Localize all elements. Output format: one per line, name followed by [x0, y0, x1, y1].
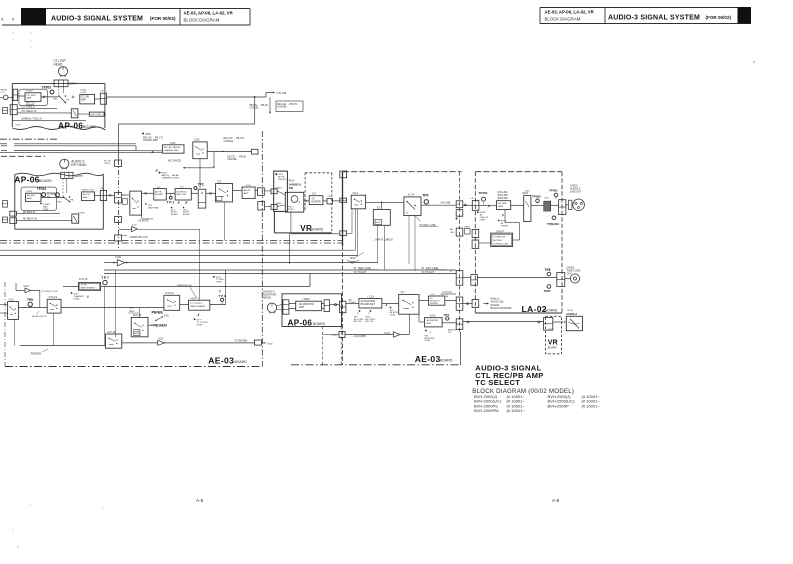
- svg-text:LANDS: LANDS: [276, 186, 283, 189]
- CTL RELAY IN wire: [17, 112, 71, 114]
- svg-text:↗: ↗: [357, 312, 360, 316]
- meter CN pair: [544, 318, 553, 331]
- TP501 test point: [50, 90, 54, 94]
- CN connector AE03 edge 2: [115, 193, 122, 204]
- svg-text:CANCEL: CANCEL: [224, 140, 234, 143]
- IC3 4.5 BUFFER: [309, 196, 323, 205]
- TC wire 2: [104, 273, 456, 275]
- svg-text:✗: ✗: [151, 151, 154, 155]
- NORMAL/STILL IN wire: [12, 119, 86, 121]
- svg-text:REC: REC: [54, 99, 59, 101]
- wire shaper in: [63, 286, 78, 288]
- wire dash to cn: [322, 334, 339, 336]
- svg-text:IC33: IC33: [246, 185, 251, 187]
- IC1 AD PB EQ AMP: [154, 189, 167, 201]
- IC30 switch: [193, 142, 207, 159]
- left header black tab: [21, 8, 46, 25]
- long verticals from tc row: [104, 287, 106, 346]
- svg-text:LA-02: LA-02: [522, 304, 547, 314]
- rounded enclosure board1: [19, 89, 48, 105]
- svg-text:CANCEL AMP: CANCEL AMP: [143, 139, 158, 142]
- IC18,19 switch C: [106, 334, 122, 348]
- svg-text:LEVEL: LEVEL: [216, 282, 223, 284]
- AP-06 board 3 outline: [282, 294, 342, 327]
- IC301 AD REC AMP: [25, 193, 41, 201]
- svg-text:W: W: [421, 266, 424, 270]
- wire cn to AE03: [107, 194, 115, 196]
- svg-text:W: W: [354, 266, 357, 270]
- TPE5 test point: [547, 285, 551, 289]
- svg-text:LEVEL: LEVEL: [74, 298, 81, 300]
- head shield dashed line: [62, 178, 64, 196]
- relay RY501: [71, 109, 78, 118]
- svg-text:AMP: AMP: [83, 196, 88, 199]
- wire q303 to transformer: [531, 204, 545, 206]
- board3 bottom dash vertical: [321, 327, 323, 366]
- svg-text:Q301,302,: Q301,302,: [497, 192, 508, 194]
- svg-text:← AA COMP1: ← AA COMP1: [351, 335, 367, 338]
- board3 right dash vertical: [340, 327, 342, 365]
- IC501 CTL PB AMP: [80, 94, 95, 104]
- svg-text:IC30: IC30: [194, 139, 200, 142]
- svg-text:OFFSET: OFFSET: [501, 225, 509, 227]
- svg-text:↗: ↗: [368, 312, 371, 316]
- IC502 CTL REC AMP: [25, 93, 41, 102]
- IC32 norm frq loc triangle: [132, 226, 138, 231]
- wire cn to pot: [265, 190, 271, 192]
- svg-text:MUTING: MUTING: [493, 240, 502, 242]
- svg-text:AD MONITOR: AD MONITOR: [299, 303, 314, 306]
- IC16,19 switch: [47, 299, 61, 313]
- CN col aa line: [456, 201, 463, 208]
- svg-text:✗: ✗: [197, 314, 200, 318]
- svg-text:BOARD: BOARD: [83, 125, 96, 129]
- svg-text:REC LINE: REC LINE: [358, 266, 371, 270]
- wire select tc to A: [61, 307, 164, 309]
- XLR connector audio-3 line out: [573, 199, 585, 211]
- Q303 S/N block: [524, 196, 531, 222]
- IC21 switch: [8, 302, 19, 320]
- svg-text:TP8: TP8: [545, 268, 551, 272]
- svg-text:REGEN: REGEN: [153, 324, 167, 328]
- IC14 block: [404, 197, 421, 216]
- meter wire junctions: [467, 321, 469, 323]
- wire regen row: [20, 345, 106, 347]
- svg-text:AS LINE: AS LINE: [498, 202, 507, 205]
- svg-text:A-9: A-9: [552, 498, 560, 503]
- vertical under ic16: [52, 313, 54, 345]
- svg-text:CHANNEL AMP: CHANNEL AMP: [164, 149, 179, 152]
- wire IC2 out: [191, 192, 199, 194]
- svg-text:HEAD: HEAD: [263, 295, 271, 299]
- wire b2 edge to eq row: [122, 194, 129, 196]
- IC5,6 AD METER AMP: [425, 318, 443, 327]
- meter wire arrow: [553, 321, 564, 323]
- svg-text:189?: 189?: [548, 329, 552, 331]
- svg-text:TP301: TP301: [37, 187, 47, 191]
- svg-text:LINE OUT: LINE OUT: [570, 190, 582, 193]
- svg-text:CHANNEL LEVEL: CHANNEL LEVEL: [162, 176, 181, 179]
- vertical link wire: [199, 159, 201, 188]
- TC REC LINE note: [415, 216, 421, 222]
- vertical from VR down: [289, 233, 291, 264]
- svg-text:BOARD: BOARD: [545, 309, 558, 313]
- LA-02 line-in CN: [472, 201, 479, 211]
- svg-text:I C1,8: I C1,8: [368, 296, 375, 299]
- svg-text:T1300: T1300: [267, 344, 274, 346]
- LA-02 left CN tc: [471, 275, 478, 286]
- svg-text:TP302: TP302: [532, 194, 541, 198]
- TP2 filter box: [198, 189, 206, 208]
- RV10 note: [370, 310, 372, 312]
- wire to CN: [255, 190, 258, 192]
- RV12 note: [213, 276, 215, 278]
- wire ic20 in: [104, 262, 117, 264]
- svg-text:-SFP: -SFP: [129, 308, 134, 310]
- AP-06 board 1 outline: [11, 83, 13, 127]
- svg-text:(# 10001~: (# 10001~: [507, 408, 526, 413]
- AE-03 right board left edge: [342, 172, 344, 246]
- svg-text:REC AD CANCEL: REC AD CANCEL: [164, 146, 182, 149]
- svg-text:AE CANCEL: AE CANCEL: [168, 159, 182, 162]
- left edge connector b2 1: [3, 217, 8, 223]
- svg-text:IC502: IC502: [80, 92, 87, 94]
- CN col mid: [456, 228, 463, 236]
- svg-text:KG50: KG50: [16, 124, 21, 126]
- svg-text:NOR / STILL: NOR / STILL: [90, 114, 102, 116]
- svg-text:AP-06: AP-06: [58, 120, 83, 130]
- NOR/STILL box: [89, 112, 104, 116]
- bus wire 1: [0, 143, 7, 145]
- connector column vertical: [459, 172, 461, 332]
- LA-02 board outline: [475, 171, 562, 173]
- TC PB WAVE SHAPER block: [78, 283, 100, 291]
- svg-text:IC15,16: IC15,16: [133, 314, 142, 317]
- svg-text:Q303: Q303: [522, 192, 529, 195]
- svg-text:→ AS MUTE: → AS MUTE: [135, 220, 148, 223]
- svg-text:TC SELECT: TC SELECT: [475, 378, 520, 387]
- left header rule top: [46, 8, 250, 10]
- wire cn to ic1-8: [330, 304, 340, 306]
- svg-text:T301: T301: [544, 198, 550, 200]
- wire amp to q303: [511, 204, 524, 206]
- wire cn to IC13 row: [333, 200, 340, 202]
- AE-03 left board bottom edge: [5, 366, 262, 368]
- svg-text:BOARD: BOARD: [235, 360, 248, 364]
- svg-text:I C609: I C609: [302, 298, 310, 301]
- svg-text:TC FROM TC-IN: TC FROM TC-IN: [41, 291, 58, 293]
- svg-text:IC500?: IC500?: [26, 91, 34, 93]
- CN col 2: [456, 210, 463, 217]
- svg-text:IC17,18: IC17,18: [107, 332, 116, 334]
- monitor head symbol: [267, 303, 276, 312]
- AD BIAS IN wire: [16, 213, 60, 215]
- svg-text:CANCEL: CANCEL: [278, 106, 288, 109]
- small VR board outline: [546, 316, 562, 354]
- svg-text:LEVEL: LEVEL: [390, 314, 396, 316]
- LA-02 left CN 1: [472, 229, 479, 237]
- RV9 note: [359, 310, 361, 312]
- svg-text:AP-06: AP-06: [288, 318, 313, 327]
- svg-text:IC3: IC3: [312, 192, 316, 195]
- svg-text:T P 7: T P 7: [101, 276, 109, 280]
- svg-text:TP5: TP5: [422, 194, 428, 198]
- right header black tab: [738, 7, 752, 24]
- svg-text:IC17,18: IC17,18: [79, 278, 88, 281]
- wire monitor to la02: [463, 303, 472, 305]
- wire aa line to amp: [463, 204, 473, 206]
- svg-text:AP-06: AP-06: [14, 174, 39, 184]
- svg-text:IC22: IC22: [24, 285, 30, 288]
- wire ic7 down to ic56: [418, 314, 420, 322]
- rounded enclosure board2: [21, 187, 57, 210]
- svg-text:AMP: AMP: [498, 205, 503, 208]
- relay RY301: [72, 214, 79, 223]
- monitor head connector: [283, 300, 289, 314]
- CN at VR bottom link: [340, 231, 347, 236]
- svg-text:REGEN: REGEN: [134, 333, 141, 335]
- CN eq out 1: [258, 188, 265, 196]
- CN at cancel crossing: [252, 149, 259, 154]
- IC3 bottom vertical: [224, 202, 226, 241]
- svg-text:AMP: AMP: [27, 97, 32, 100]
- svg-text:IC7: IC7: [377, 206, 381, 209]
- TC wire 1: [104, 269, 456, 271]
- RV note board2: [40, 203, 42, 205]
- wire vr link right: [347, 232, 352, 234]
- wire shaper out: [101, 286, 310, 288]
- dust specks: [30, 505, 31, 506]
- wire meter line: [463, 320, 544, 322]
- wire ic7 to ic6: [419, 300, 429, 302]
- svg-text:TPE5: TPE5: [544, 289, 551, 293]
- svg-text:CTL RELAY IN: CTL RELAY IN: [21, 110, 36, 113]
- svg-text:✗: ✗: [87, 295, 90, 299]
- svg-text:SELECTED TC: SELECTED TC: [32, 316, 47, 318]
- svg-text:0.: 0.: [1, 17, 4, 22]
- IC switch block eq input: [130, 191, 142, 215]
- svg-text:CANCEL: CANCEL: [227, 158, 237, 161]
- svg-text:IC301: IC301: [26, 191, 33, 193]
- wire ic21 to ic16: [18, 307, 47, 309]
- wire ic21 out: [400, 334, 409, 336]
- IC3 switch: [216, 184, 233, 202]
- svg-text:LEVEL: LEVEL: [425, 340, 431, 342]
- RV301 offset note: [498, 220, 500, 222]
- long verticals under IC13 IC7: [354, 209, 356, 250]
- svg-text:CN: CN: [100, 188, 104, 190]
- bus dash-dot 1: [0, 240, 343, 242]
- POWER ON MUTING CONTROLLER block: [491, 233, 513, 246]
- wire shaper out: [210, 304, 226, 306]
- svg-text:EQ ADJ: EQ ADJ: [171, 213, 178, 216]
- svg-text:REGEN: REGEN: [31, 352, 42, 356]
- Refer to AUDIO-1&2 note: [487, 303, 489, 305]
- svg-text:IC 14: IC 14: [408, 193, 415, 197]
- svg-text:BVH-2000PM: BVH-2000PM: [474, 408, 498, 413]
- svg-text:AA MONITOR: AA MONITOR: [441, 293, 456, 296]
- RV TC OUTPUT LEVEL note: [194, 318, 196, 320]
- CN aa comp return: [339, 332, 345, 338]
- CN col tc pair: [456, 271, 463, 286]
- svg-text:TRAP: TRAP: [43, 208, 49, 211]
- svg-text:AMP: AMP: [244, 192, 249, 195]
- long verticals under IC14: [408, 216, 410, 265]
- svg-text:EQ AMP: EQ AMP: [155, 193, 164, 196]
- wire ic22: [16, 289, 25, 291]
- CN col monitor pair: [456, 297, 463, 310]
- IC15,16 switch B: [131, 317, 148, 336]
- CN pair after board3: [340, 301, 346, 313]
- left dash-dot stub: [0, 138, 57, 140]
- svg-text:AD PB: AD PB: [155, 190, 162, 193]
- svg-text:IC13,14: IC13,14: [165, 292, 174, 295]
- AD RELAY IN wire: [16, 220, 71, 222]
- T301 transformer: [544, 201, 551, 211]
- svg-text:AE-03, AP-06, LA-02, VR: AE-03, AP-06, LA-02, VR: [545, 10, 595, 15]
- svg-text:BOARD: BOARD: [39, 179, 52, 183]
- svg-text:✗: ✗: [177, 201, 180, 205]
- AD PB AMP block: [82, 192, 95, 201]
- bias trap note: [145, 203, 147, 205]
- AE-03 left board edge vertical: [118, 160, 120, 248]
- wire muting to amp: [504, 210, 506, 223]
- TC arrow out: [262, 342, 265, 344]
- svg-text:AMP: AMP: [81, 98, 86, 101]
- svg-text:RV8: RV8: [146, 132, 152, 136]
- svg-text:BUFFER: BUFFER: [430, 303, 439, 305]
- svg-text:AD RELAY IN: AD RELAY IN: [23, 218, 37, 221]
- svg-text:A-8: A-8: [196, 498, 204, 503]
- left stub circle: [3, 95, 8, 100]
- wire cn to la02 tc: [463, 277, 471, 279]
- CN connector AE03 edge 3: [115, 217, 122, 223]
- svg-text:TP10: TP10: [350, 257, 357, 260]
- left header sub-box: [179, 9, 181, 26]
- IC7 mute block: [373, 210, 390, 226]
- left edge connector 0: [3, 108, 8, 114]
- AE-03 left board left edge: [4, 282, 6, 367]
- wire IC3 to AS PB AMP: [233, 190, 243, 192]
- svg-text:TC TO EXT: TC TO EXT: [354, 271, 367, 274]
- svg-text:R-0: R-0: [448, 332, 451, 334]
- svg-text:AUDIO-3 SIGNAL SYSTEM: AUDIO-3 SIGNAL SYSTEM: [608, 15, 700, 22]
- RV302 line out note: [477, 211, 479, 213]
- svg-text:THRM FRG-CE: THRM FRG-CE: [177, 285, 193, 287]
- CN buffer out: [327, 199, 333, 204]
- svg-text:✗: ✗: [219, 289, 222, 293]
- TP1 test point: [169, 196, 172, 199]
- svg-text:TC TO EXT: TC TO EXT: [421, 271, 434, 274]
- wire rec amp to switch: [41, 96, 58, 98]
- svg-text:AMP+DET: AMP+DET: [177, 193, 188, 196]
- svg-text:TW2: TW2: [164, 316, 170, 318]
- LA-02 left CN 2: [472, 240, 479, 249]
- svg-text:BUFFER: BUFFER: [312, 201, 322, 203]
- svg-text:IC5,6: IC5,6: [430, 315, 436, 318]
- wire filter to IC3: [206, 192, 216, 194]
- junction circle board3 out: [334, 304, 336, 306]
- wire head to connector: [277, 304, 283, 306]
- wire IC13 out: [366, 201, 404, 203]
- svg-text:AUDIO-3: AUDIO-3: [566, 312, 577, 316]
- svg-text:IC33: IC33: [170, 142, 176, 145]
- wire switch assembly: [58, 87, 60, 95]
- record/play switch: [59, 96, 66, 103]
- svg-text:IC20: IC20: [116, 255, 122, 259]
- CN VR in 2: [271, 205, 277, 210]
- RV7 note: [390, 307, 392, 309]
- wire head to amp: [289, 303, 296, 305]
- svg-text:PUSH: PUSH: [288, 209, 294, 211]
- svg-text:AS PB: AS PB: [244, 189, 251, 192]
- svg-text:LEVEL: LEVEL: [480, 219, 486, 221]
- IC1,8 AD MONITOR PB AMP: [359, 299, 382, 309]
- left edge connector b2 0: [3, 201, 8, 208]
- svg-text:BLOCK DIAGRAM: BLOCK DIAGRAM: [545, 17, 581, 22]
- AE-03/VR dash-dot boundary vertical: [261, 131, 263, 367]
- AA LINE wire: [421, 204, 457, 206]
- RV out level note: [71, 292, 73, 294]
- AUDIO-3 R/P head symbol: [60, 159, 69, 168]
- IC6 TC MONITOR BUFFER: [429, 296, 445, 305]
- VR pot box: [285, 192, 304, 212]
- wire pot to buffer: [304, 200, 309, 202]
- TC OUTPUT WAVE SHAPER box: [189, 300, 210, 310]
- wire cancel out: [207, 151, 251, 153]
- svg-text:BIAS TRAP: BIAS TRAP: [148, 206, 159, 209]
- AP-06 board 2 outline torn top: [15, 173, 104, 176]
- svg-text:HEAD: HEAD: [54, 63, 64, 67]
- IC7 monitor switch: [399, 294, 419, 314]
- svg-text:OUT: OUT: [567, 272, 573, 275]
- svg-text:TC PB: TC PB: [81, 285, 88, 287]
- svg-text:(# 10001~: (# 10001~: [582, 403, 601, 408]
- wire buffer to cn: [323, 200, 327, 202]
- CTL R/P head symbol: [58, 67, 67, 76]
- wire ic56 to cn: [442, 322, 457, 324]
- svg-text:REC: REC: [58, 201, 63, 203]
- svg-text:PB CTL → PB AD: PB CTL → PB AD: [250, 104, 269, 107]
- svg-text:T P 1: T P 1: [167, 201, 175, 205]
- bus wire 2: [1, 145, 7, 147]
- svg-text:TC REGEN: TC REGEN: [234, 340, 247, 343]
- svg-text:→ INPUT CHECK: → INPUT CHECK: [372, 237, 393, 241]
- CN connector AE03 edge 4: [115, 235, 122, 241]
- wire IC1 to IC2: [166, 192, 175, 194]
- wire sw to IC1: [142, 192, 154, 194]
- wire amp to cn: [321, 303, 324, 305]
- TP test points board2: [42, 193, 46, 197]
- svg-text:AD BIAS IN: AD BIAS IN: [23, 211, 35, 214]
- svg-text:AE-03: AE-03: [415, 354, 441, 364]
- svg-text:IC22: IC22: [158, 339, 164, 341]
- svg-text:CTL REC: CTL REC: [27, 95, 37, 97]
- svg-text:CTL SHIELD: CTL SHIELD: [21, 107, 35, 109]
- RV2 note: [183, 207, 185, 209]
- svg-text:Q306,308: Q306,308: [497, 198, 508, 200]
- svg-text:TP2: TP2: [198, 182, 204, 186]
- wire relay to nor/still: [78, 113, 89, 115]
- REC AD to PB CTL CANCEL label box: [276, 101, 303, 112]
- svg-text:✗: ✗: [185, 201, 188, 205]
- svg-text:REC AD → PB CTL: REC AD → PB CTL: [143, 137, 164, 140]
- svg-text:AD PB: AD PB: [83, 193, 90, 196]
- wire norm frq: [122, 235, 128, 237]
- wire ic20 out: [125, 262, 378, 264]
- svg-text:✗: ✗: [385, 304, 388, 308]
- CN at AE-03 top corner: [340, 171, 347, 178]
